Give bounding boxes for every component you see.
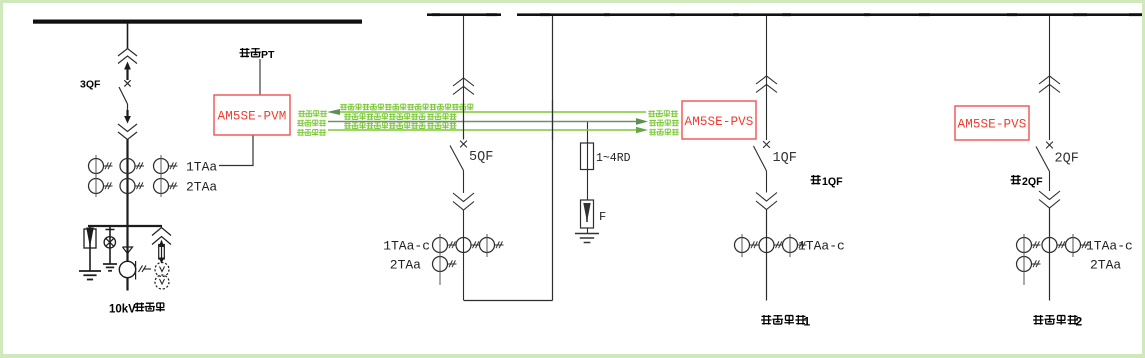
- svg-text:2QF: 2QF: [1022, 176, 1043, 188]
- svg-text:1TAa-c: 1TAa-c: [383, 239, 430, 254]
- svg-text:1: 1: [804, 315, 811, 329]
- svg-text:2TAa: 2TAa: [390, 258, 421, 273]
- svg-text:PT: PT: [261, 49, 275, 61]
- svg-text:2QF: 2QF: [1055, 152, 1079, 167]
- svg-text:10kV: 10kV: [109, 304, 136, 316]
- svg-text:1TAa: 1TAa: [186, 160, 217, 175]
- svg-text:F: F: [599, 210, 606, 224]
- svg-text:1TAa-c: 1TAa-c: [798, 239, 845, 254]
- svg-text:3QF: 3QF: [80, 79, 101, 91]
- svg-text:5QF: 5QF: [469, 150, 493, 165]
- svg-text:AM5SE-PVM: AM5SE-PVM: [218, 110, 287, 124]
- svg-text:2TAa: 2TAa: [1090, 258, 1121, 273]
- svg-text:1~4RD: 1~4RD: [596, 152, 631, 165]
- svg-text:2TAa: 2TAa: [186, 180, 217, 195]
- svg-text:1QF: 1QF: [773, 151, 797, 166]
- svg-text:1QF: 1QF: [822, 176, 843, 188]
- svg-text:2: 2: [1076, 315, 1083, 329]
- svg-text:AM5SE-PVS: AM5SE-PVS: [685, 115, 754, 129]
- svg-text:1TAa-c: 1TAa-c: [1086, 239, 1133, 254]
- svg-text:AM5SE-PVS: AM5SE-PVS: [958, 118, 1027, 132]
